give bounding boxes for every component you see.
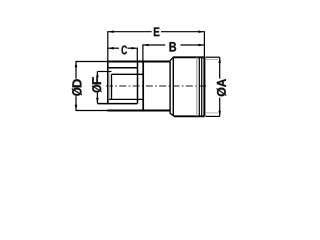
E arrow left: [108, 30, 113, 33]
B arrow left: [143, 44, 148, 47]
centerline (dash-dot axis): [106, 85, 207, 87]
dimension C line: [108, 47, 119, 49]
ØA arrow down: [218, 111, 221, 116]
ØA extension top: [206, 56, 220, 58]
right end chamfer ghost top: [205, 58, 218, 60]
body top edge with ØD top extension (one line): [75, 61, 107, 63]
thread outer line top: [108, 67, 137, 69]
C arrow left: [108, 47, 113, 50]
label ØA (rotated): [217, 79, 226, 87]
bore chamfer vertical: [111, 74, 113, 99]
extension line left (shared by E and C): [107, 31, 109, 61]
ØF arrow up: [96, 72, 99, 77]
ØD arrow down: [75, 105, 78, 110]
ØA arrow up: [218, 58, 221, 63]
label E: [154, 28, 160, 37]
ring line 1: [198, 57, 200, 116]
step chamfer bottom diagonal: [170, 113, 174, 116]
ØA dimension line lower segment: [219, 98, 221, 117]
ØF dimension line lower segment: [96, 93, 98, 104]
ØF dimension line upper segment: [96, 72, 98, 77]
E arrow right: [199, 30, 204, 33]
ring line gray near end: [196, 57, 198, 116]
dimension B line: [143, 44, 166, 46]
bore inner line top: [112, 73, 144, 75]
ØD dimension line lower segment: [75, 96, 77, 110]
right end chamfer ghost bottom: [205, 112, 218, 114]
left end face: [107, 61, 109, 104]
label B: [170, 42, 177, 51]
label C: [122, 46, 128, 55]
C arrow right: [132, 47, 137, 50]
bore inner line bottom: [108, 98, 143, 100]
right section bottom edge: [174, 115, 204, 117]
body bottom edge with ØD bottom extension (one line): [75, 110, 107, 112]
ØA dimension line upper segment: [219, 57, 221, 78]
ØD dimension line upper segment: [75, 62, 77, 79]
body joint line (merges with B extension above): [142, 44, 144, 61]
label ØD (rotated): [72, 79, 81, 87]
ØA extension bottom: [206, 115, 220, 117]
thread chamfer gray line: [108, 72, 110, 99]
step vertical between mid and right section: [169, 62, 171, 114]
step chamfer top diagonal: [170, 57, 173, 61]
ØF extension stub top: [97, 71, 111, 73]
ØF arrow down: [96, 98, 99, 103]
ØD arrow up: [75, 62, 78, 67]
thread end vertical (merges with C extension above): [136, 48, 138, 62]
thread outer line bottom (extends left as ØF extension): [97, 103, 137, 105]
ring line 2: [201, 57, 203, 116]
right section top edge: [173, 56, 205, 58]
B arrow right: [199, 44, 204, 47]
right end face (thick, merges with E/B extension above): [203, 57, 205, 116]
dimension E line: [108, 31, 152, 33]
extension line right (shared by E and B): [203, 31, 205, 57]
label ØF (rotated): [92, 77, 101, 84]
